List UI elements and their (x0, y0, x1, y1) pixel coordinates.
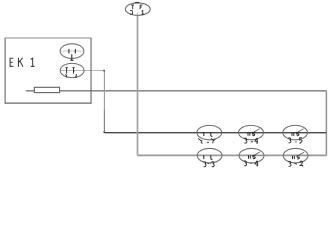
switch symbol A1 (row1 left) (197, 125, 222, 143)
wire row-1 bus (104, 132, 326, 134)
switch symbol B2 (row2 middle) (239, 148, 264, 165)
junction dot bottom (103, 131, 105, 133)
distribution board EK1 (5, 38, 92, 104)
wire right drop (vertical at right edge) (325, 91, 327, 156)
wire drop from luminaire (stem) (137, 15, 139, 155)
wire vertical drop at x104 (103, 71, 105, 110)
wire resistor feed (horizontal bus from board to right edge) (26, 90, 327, 92)
wire vertical drop at x104 (lower) (103, 110, 105, 133)
switch symbol C1 (row1 right) (283, 125, 308, 143)
resistor R1 (34, 87, 59, 92)
switch symbol B1 (row1 middle) (239, 125, 264, 143)
switch symbol A2 (row2 left) (197, 148, 222, 166)
socket symbol S1 (in board, upper) (60, 44, 84, 61)
luminaire TF 3.1 (top) (125, 3, 150, 16)
wire row-2 bus (138, 154, 327, 156)
socket symbol S2 (in board, lower) (60, 63, 84, 77)
wire from socket S2 to node (y70) (60, 70, 104, 72)
junction dot top (103, 70, 105, 72)
switch symbol C2 (row2 right) (283, 148, 308, 166)
label EK1 (10, 58, 34, 67)
